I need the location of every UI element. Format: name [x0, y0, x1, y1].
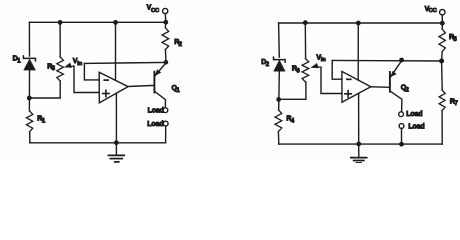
svg-text:Load: Load	[148, 108, 164, 115]
terminal Load upper left	[163, 108, 168, 113]
wire left branch from rail to D1	[28, 22, 30, 56]
svg-text:CC: CC	[151, 8, 160, 14]
wiper arrow of R3	[65, 63, 74, 67]
node junction D1-R1-R3return	[27, 96, 32, 101]
wire op-amp U2 V- supply to ground rail	[358, 94, 360, 144]
resistor R5	[439, 29, 445, 51]
wire VCC terminal to rail right	[441, 15, 443, 21]
wire rail to R6 top	[304, 23, 306, 59]
svg-text:Load: Load	[147, 121, 163, 128]
wire bottom rail left circuit	[30, 142, 166, 144]
node B junction dot (emitter-feedback)	[399, 58, 404, 63]
wire Vin wiper to op-amp plus input right	[321, 67, 342, 93]
wire node to R6 bottom	[279, 82, 306, 99]
terminal Load lower left	[163, 121, 168, 126]
op-amp U2 minus pin mark	[347, 78, 351, 80]
wire Load lower terminal to bottom rail right	[401, 128, 403, 144]
transistor Q2 PNP base bar	[389, 72, 391, 92]
potentiometer R3	[57, 57, 64, 81]
op-amp U1 plus pin mark	[103, 93, 109, 95]
wire D2 anode to R4	[278, 71, 281, 110]
ground symbol left circuit	[108, 143, 124, 162]
op-amp U2 triangle	[342, 71, 371, 102]
wire node to R7	[441, 61, 444, 90]
potentiometer R6	[302, 59, 309, 82]
node junction bottom rail-load return right	[399, 142, 404, 147]
wire feedback from node A to inverting corner	[84, 62, 165, 63]
svg-text:Load: Load	[406, 111, 422, 118]
wire op-amp U2 output to Q2 base	[371, 86, 390, 89]
svg-text:in: in	[321, 57, 326, 63]
svg-text:CC: CC	[429, 8, 438, 14]
wire top VCC rail left circuit	[29, 21, 165, 23]
wire R7 to bottom rail right	[441, 111, 443, 145]
wire R5 to node	[441, 52, 444, 59]
transistor Q2 collector	[390, 91, 402, 111]
wire rail to R2	[164, 22, 166, 28]
wiper arrow of R6	[311, 64, 321, 68]
node junction rail-opamp U2 supply	[356, 21, 361, 26]
op-amp U1 minus pin mark	[104, 79, 108, 81]
wire VCC terminal to rail left	[164, 14, 166, 20]
wire D1 anode to R1	[28, 70, 30, 111]
node junction rail-VCC-R2	[163, 20, 168, 25]
wire rail to R3 top	[59, 22, 61, 57]
wire bottom rail right circuit	[279, 143, 442, 145]
node junction D2-R4-R6return	[276, 97, 281, 102]
wire node to R3 bottom	[29, 81, 60, 98]
node junction rail-R3	[58, 20, 63, 25]
wire R4 to bottom rail right	[277, 132, 279, 145]
transistor Q1 emitter with arrow	[155, 63, 166, 76]
terminal Load upper right	[399, 112, 404, 117]
transistor Q2 emitter with arrow	[391, 61, 402, 77]
wire R2 to node A	[164, 50, 167, 60]
wire feedback line right circuit	[332, 59, 441, 62]
resistor R1	[26, 111, 32, 132]
svg-text:Load: Load	[408, 123, 424, 130]
op-amp U2 plus pin mark	[345, 93, 351, 95]
wire Load lower terminal to bottom rail	[165, 126, 167, 143]
transistor Q1 PNP base bar	[153, 72, 155, 93]
transistor Q1 collector	[155, 91, 166, 107]
zener diode D1	[23, 56, 35, 70]
resistor R7	[439, 90, 445, 111]
wire op-amp U2 V+ supply from rail	[357, 23, 359, 80]
wire feedback down to inverting input	[84, 63, 99, 80]
node junction rail-R6	[303, 20, 308, 25]
node junction bottom rail-ground right	[356, 142, 361, 147]
op-amp U1 triangle	[99, 72, 128, 103]
node junction bottom rail-ground	[114, 140, 119, 145]
resistor R2	[162, 28, 169, 50]
resistor R4	[275, 110, 282, 132]
svg-text:in: in	[77, 61, 82, 67]
wire left branch from rail to D2	[278, 23, 281, 57]
wire top VCC rail right circuit	[279, 22, 443, 24]
wire op-amp V+ supply from rail	[115, 22, 117, 80]
wire feedback down to inverting input right	[332, 60, 342, 79]
node junction R5-R7-feedback	[439, 59, 444, 64]
wire op-amp output to Q1 base	[128, 85, 154, 86]
wire rail to R5	[441, 23, 443, 29]
node junction rail-opamp supply	[113, 20, 118, 25]
ground symbol right circuit	[351, 144, 367, 163]
node A junction dot	[164, 60, 169, 65]
terminal VCC right	[440, 10, 445, 15]
node junction rail-VCC-R5	[440, 21, 445, 26]
terminal VCC left	[163, 8, 168, 13]
terminal Load lower right	[399, 124, 404, 129]
zener diode D2	[274, 57, 286, 71]
wire Vin wiper to op-amp plus input	[74, 66, 99, 93]
wire R1 to bottom rail	[29, 132, 31, 143]
wire op-amp V- supply to ground rail	[115, 93, 117, 142]
